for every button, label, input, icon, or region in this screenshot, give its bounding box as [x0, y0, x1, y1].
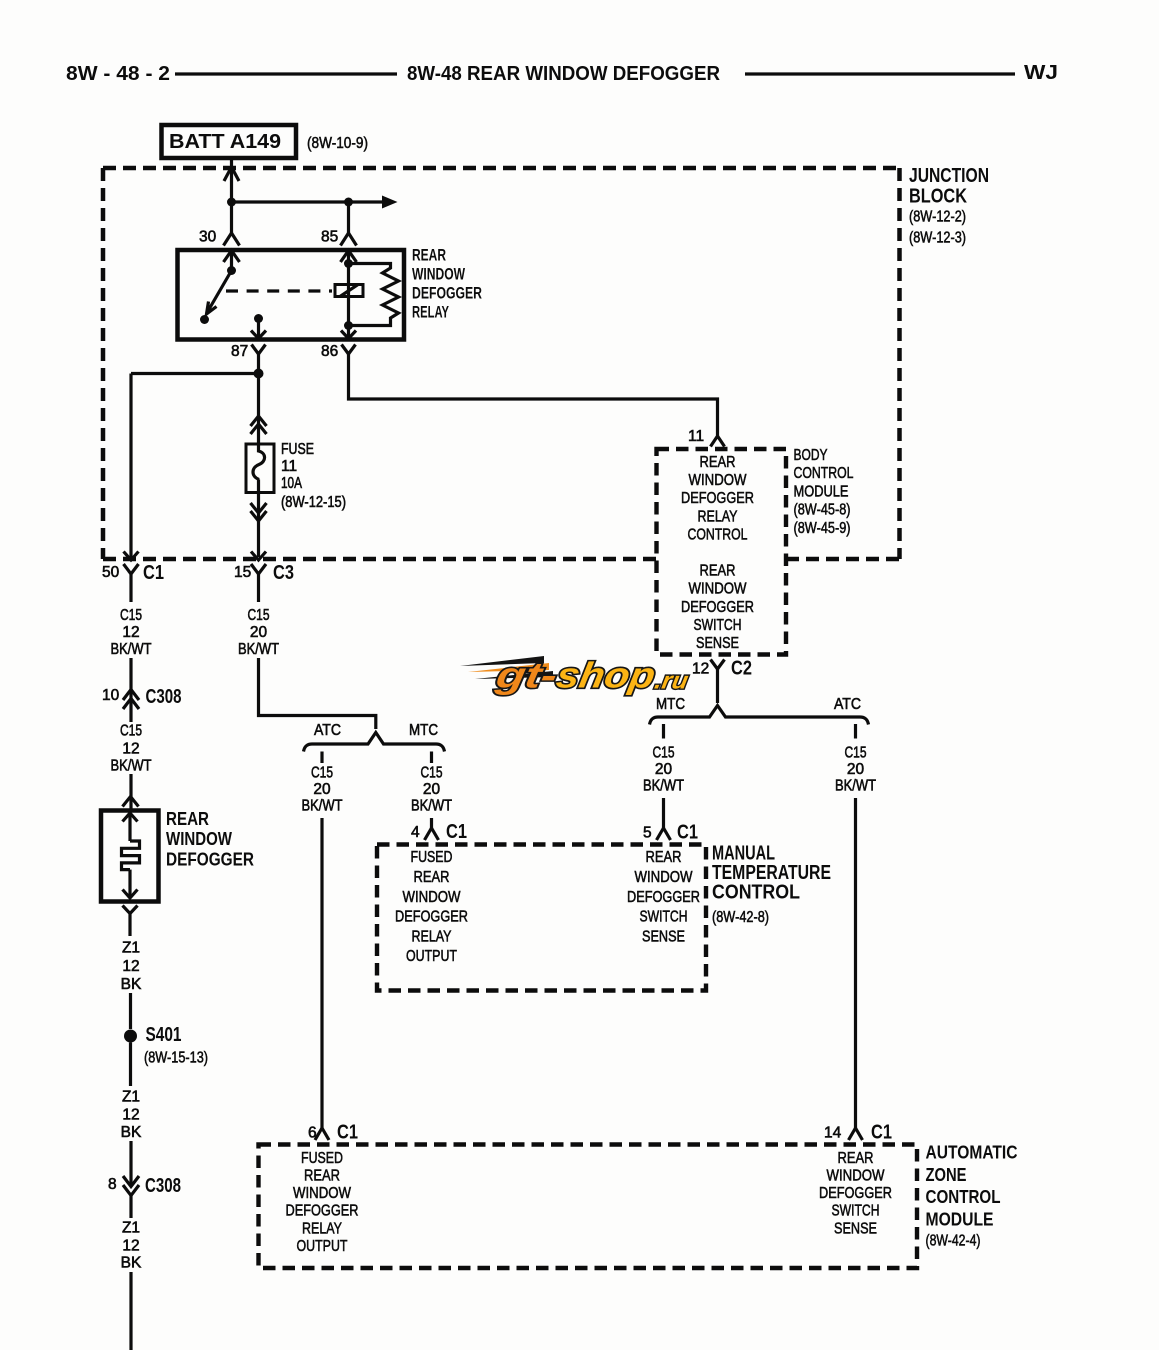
svg-text:C308: C308 [146, 686, 182, 708]
pin 87 contact dot and wire [254, 314, 263, 323]
svg-text:C15: C15 [845, 745, 867, 762]
svg-text:Z1: Z1 [122, 1220, 140, 1237]
svg-text:C1: C1 [446, 821, 467, 843]
junction block [103, 165, 989, 559]
svg-text:C15: C15 [653, 745, 675, 762]
svg-text:11: 11 [281, 458, 297, 475]
svg-text:MTC: MTC [656, 696, 685, 713]
svg-text:REAR: REAR [838, 1150, 874, 1167]
svg-text:C1: C1 [337, 1122, 358, 1144]
svg-text:(8W-12-2): (8W-12-2) [909, 209, 966, 226]
svg-text:85: 85 [321, 229, 338, 246]
svg-text:OUTPUT: OUTPUT [406, 948, 457, 965]
C308 inline connector 10 (double chevron up) [123, 690, 139, 701]
svg-text:12: 12 [122, 1238, 139, 1255]
gt-shop.ru logo text [492, 655, 693, 696]
svg-text:WINDOW: WINDOW [635, 869, 694, 886]
svg-text:BK: BK [121, 976, 142, 993]
svg-text:REAR: REAR [414, 869, 450, 886]
svg-text:WINDOW: WINDOW [166, 828, 232, 849]
svg-text:Z1: Z1 [122, 1089, 140, 1106]
pin 86 wire to box edge [347, 326, 350, 338]
wire below C308 [129, 1196, 132, 1219]
junction block dashed border top [103, 166, 900, 171]
fuse element squiggle [253, 444, 265, 493]
wire below fuse [257, 493, 260, 558]
svg-text:12: 12 [122, 958, 139, 975]
wire to C308 8 [129, 1141, 132, 1186]
svg-text:SENSE: SENSE [834, 1220, 877, 1237]
svg-text:C15: C15 [421, 765, 443, 782]
fuse column [234, 374, 376, 730]
svg-text:87: 87 [231, 343, 248, 360]
wire to page bottom [129, 1272, 132, 1350]
svg-text:SENSE: SENSE [642, 928, 685, 945]
MTC stub [662, 724, 665, 739]
svg-text:15: 15 [234, 564, 251, 581]
svg-text:6: 6 [308, 1125, 317, 1142]
svg-text:DEFOGGER: DEFOGGER [819, 1185, 892, 1202]
svg-text:WINDOW: WINDOW [293, 1185, 352, 1202]
svg-text:12: 12 [692, 661, 709, 678]
wire bus from batt node to pin 85 with right arrow [232, 200, 391, 203]
splits [302, 696, 893, 1144]
node at batt wire [227, 198, 236, 207]
svg-text:CONTROL: CONTROL [688, 526, 748, 543]
svg-text:C15: C15 [248, 607, 270, 624]
svg-text:20: 20 [655, 761, 673, 778]
MTC wire into 5 C1 [662, 798, 665, 828]
svg-text:8: 8 [108, 1176, 117, 1193]
svg-text:gt-: gt- [492, 655, 560, 696]
svg-text:30: 30 [199, 229, 217, 246]
svg-text:(8W-12-3): (8W-12-3) [909, 230, 966, 247]
switch fixed contact [200, 315, 209, 324]
rear window defogger grid box [101, 811, 159, 902]
svg-text:BLOCK: BLOCK [909, 186, 967, 208]
svg-text:(8W-45-8): (8W-45-8) [794, 502, 851, 519]
wire 87 node to left column [131, 372, 259, 375]
BATT A149 feed [162, 125, 369, 202]
left column [101, 374, 254, 1350]
svg-text:BK/WT: BK/WT [302, 798, 343, 815]
svg-text:WINDOW: WINDOW [403, 889, 462, 906]
svg-text:JUNCTION: JUNCTION [909, 165, 989, 187]
svg-text:BK/WT: BK/WT [643, 778, 684, 795]
inline chevrons above fuse [251, 416, 267, 426]
svg-text:12: 12 [122, 741, 139, 758]
svg-text:20: 20 [250, 624, 268, 641]
svg-text:DEFOGGER: DEFOGGER [627, 889, 700, 906]
svg-text:FUSED: FUSED [411, 849, 453, 866]
grid element arrow up [123, 813, 138, 822]
svg-text:DEFOGGER: DEFOGGER [166, 849, 254, 870]
switch common stem [230, 251, 233, 271]
fuse 11 box [246, 444, 274, 493]
switch arm with arrow [208, 271, 232, 312]
HEADER [66, 62, 1058, 85]
svg-text:C308: C308 [145, 1175, 181, 1197]
junction block dashed border right [897, 168, 902, 559]
wire 86 to BCM pin 11 [349, 354, 718, 429]
svg-text:14: 14 [824, 1125, 842, 1142]
svg-text:C3: C3 [273, 562, 294, 584]
svg-text:SWITCH: SWITCH [694, 617, 742, 634]
junction node at 87 [254, 369, 264, 379]
svg-text:BK/WT: BK/WT [238, 641, 279, 658]
svg-text:8W - 48 - 2: 8W - 48 - 2 [66, 63, 170, 85]
svg-text:WINDOW: WINDOW [412, 265, 466, 284]
svg-text:WINDOW: WINDOW [689, 472, 748, 489]
svg-text:10A: 10A [281, 475, 302, 492]
C2 split brace [650, 706, 869, 725]
coil stem wire [347, 251, 350, 326]
coil winding resistor branch [349, 264, 399, 326]
splice S401 [124, 1030, 137, 1043]
svg-text:RELAY: RELAY [412, 303, 449, 322]
svg-text:DEFOGGER: DEFOGGER [681, 599, 754, 616]
svg-text:RELAY: RELAY [412, 928, 452, 945]
svg-text:CONTROL: CONTROL [794, 465, 854, 482]
AZC box [259, 1142, 1018, 1269]
svg-text:BATT A149: BATT A149 [169, 131, 281, 153]
svg-text:(8W-15-13): (8W-15-13) [144, 1050, 208, 1067]
svg-text:C1: C1 [143, 562, 164, 584]
grid element arrow down [128, 870, 131, 897]
arrow into junction block edge [124, 552, 139, 561]
svg-text:C15: C15 [120, 723, 142, 740]
wire into defogger with chevron [129, 774, 132, 810]
svg-text:S401: S401 [146, 1024, 182, 1046]
wire 87 node down to fuse [257, 374, 260, 445]
svg-text:SWITCH: SWITCH [640, 909, 688, 926]
svg-text:FUSE: FUSE [281, 441, 314, 458]
svg-text:BK/WT: BK/WT [111, 758, 152, 775]
svg-text:RELAY: RELAY [698, 508, 738, 525]
svg-text:(8W-42-4): (8W-42-4) [926, 1233, 981, 1250]
grid heater element [122, 841, 140, 870]
svg-text:REAR: REAR [304, 1168, 340, 1185]
svg-text:11: 11 [688, 428, 704, 445]
header rule left [175, 72, 397, 75]
svg-text:DEFOGGER: DEFOGGER [412, 284, 482, 303]
svg-text:BODY: BODY [794, 447, 828, 464]
BATT A149 box [162, 125, 297, 158]
MTC stub right [430, 752, 433, 764]
svg-text:ZONE: ZONE [926, 1164, 967, 1185]
svg-text:DEFOGGER: DEFOGGER [395, 909, 468, 926]
junction block dashed border bottom right part [786, 557, 900, 562]
svg-text:12: 12 [122, 624, 139, 641]
gt-shop.ru logo speed streaks [460, 656, 544, 666]
armature dashed link [226, 289, 332, 292]
svg-text:(8W-45-9): (8W-45-9) [794, 520, 851, 537]
BCM [657, 428, 854, 703]
svg-text:5: 5 [643, 825, 652, 842]
MTC box [377, 843, 831, 991]
watermark [460, 655, 693, 696]
svg-text:FUSED: FUSED [301, 1150, 343, 1167]
automatic zone control module dashed box [259, 1145, 918, 1269]
svg-text:(8W-42-8): (8W-42-8) [712, 909, 769, 926]
wire to C308 [129, 658, 132, 722]
wire down from 87 node to junction edge [129, 374, 132, 558]
svg-text:20: 20 [847, 761, 865, 778]
svg-text:DEFOGGER: DEFOGGER [286, 1203, 359, 1220]
svg-text:SWITCH: SWITCH [832, 1203, 880, 1220]
svg-text:DEFOGGER: DEFOGGER [681, 490, 754, 507]
svg-text:C15: C15 [311, 765, 333, 782]
svg-text:C15: C15 [120, 607, 142, 624]
svg-text:8W-48 REAR WINDOW DEFOGGER: 8W-48 REAR WINDOW DEFOGGER [407, 63, 721, 85]
svg-text:(8W-10-9): (8W-10-9) [307, 135, 368, 152]
wire from BATT down with up arrow [230, 158, 233, 202]
svg-text:WJ: WJ [1024, 62, 1058, 84]
svg-text:REAR: REAR [700, 454, 736, 471]
svg-text:CONTROL: CONTROL [926, 1186, 1001, 1207]
wire down to pin 85 [347, 202, 350, 234]
wire down to pin 30 [230, 202, 233, 234]
svg-text:C1: C1 [677, 822, 698, 844]
svg-text:REAR: REAR [646, 849, 682, 866]
svg-text:10: 10 [102, 687, 120, 704]
svg-text:Z1: Z1 [122, 940, 140, 957]
MTC wire into 4 C1 [430, 818, 433, 828]
inline chevrons below fuse [251, 503, 267, 513]
svg-text:.ru: .ru [653, 668, 691, 695]
ATC wire down to 6 C1 [320, 818, 323, 1128]
header rule right [745, 72, 1015, 75]
svg-text:OUTPUT: OUTPUT [297, 1238, 348, 1255]
svg-text:12: 12 [122, 1107, 139, 1124]
svg-text:(8W-12-15): (8W-12-15) [281, 494, 346, 511]
node above pin 85 [344, 198, 353, 207]
svg-text:ATC: ATC [314, 722, 341, 739]
wire below S401 [129, 1043, 132, 1087]
svg-text:AUTOMATIC: AUTOMATIC [926, 1142, 1018, 1163]
BCM dashed box [657, 449, 787, 655]
svg-text:SENSE: SENSE [696, 635, 739, 652]
svg-text:4: 4 [411, 824, 420, 841]
svg-text:ATC: ATC [834, 696, 861, 713]
relay [131, 196, 718, 430]
ATC stub left [320, 752, 323, 764]
wire to S401 [129, 993, 132, 1029]
svg-text:C2: C2 [731, 658, 752, 680]
svg-text:CONTROL: CONTROL [712, 882, 800, 904]
svg-text:50: 50 [102, 564, 120, 581]
svg-text:REAR: REAR [700, 563, 736, 580]
arrow into junction block edge [251, 552, 266, 561]
ATC stub [854, 724, 857, 739]
svg-text:20: 20 [313, 781, 331, 798]
relay box [178, 250, 405, 340]
wire down and right to split [259, 658, 376, 729]
svg-text:MODULE: MODULE [794, 483, 849, 500]
svg-text:20: 20 [423, 781, 441, 798]
svg-text:BK: BK [121, 1124, 142, 1141]
svg-text:BK/WT: BK/WT [411, 798, 452, 815]
svg-text:BK: BK [121, 1255, 142, 1272]
svg-text:WINDOW: WINDOW [689, 581, 748, 598]
ATC wire down to 14 C1 [854, 798, 857, 1128]
svg-text:RELAY: RELAY [302, 1220, 342, 1237]
svg-text:MTC: MTC [409, 722, 438, 739]
svg-text:BK/WT: BK/WT [111, 641, 152, 658]
junction block dashed border left [101, 168, 106, 559]
svg-text:C1: C1 [871, 1122, 892, 1144]
C3 split brace [304, 733, 445, 752]
manual temperature control dashed box [377, 845, 706, 991]
svg-text:WINDOW: WINDOW [827, 1168, 886, 1185]
svg-text:shop: shop [553, 655, 658, 696]
svg-text:REAR: REAR [166, 808, 209, 829]
svg-text:REAR: REAR [412, 246, 446, 265]
junction block dashed border bottom left part [103, 557, 657, 562]
svg-text:MODULE: MODULE [926, 1208, 994, 1229]
coil box symbol [335, 285, 363, 297]
fork below defogger [123, 906, 138, 914]
svg-text:BK/WT: BK/WT [835, 778, 876, 795]
svg-text:86: 86 [321, 343, 338, 360]
C308 inline connector 8 (double chevron down) [123, 1176, 139, 1187]
